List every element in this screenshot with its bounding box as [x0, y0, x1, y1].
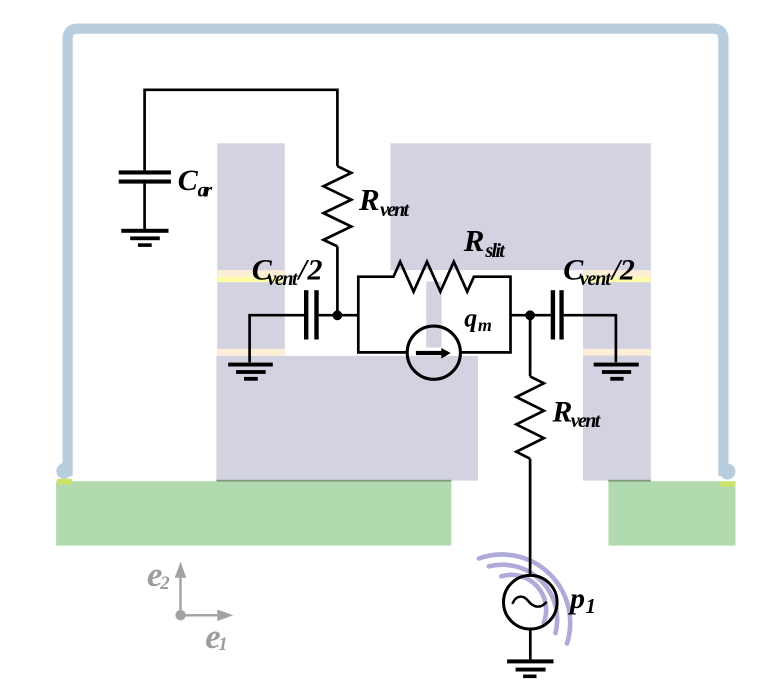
bottom-center MEMS block (lavender): [216, 356, 478, 481]
right column yellow layer: [583, 277, 651, 282]
svg-text:vent: vent: [580, 268, 613, 290]
svg-text:/2: /2: [610, 253, 635, 286]
wire node B down: [529, 315, 532, 376]
svg-text:1: 1: [586, 594, 597, 618]
wire left Cvent to node A: [319, 314, 359, 317]
svg-text:vent: vent: [571, 410, 602, 432]
lid right end blob: [720, 464, 736, 480]
capacitor C1 Car plates: [119, 170, 171, 174]
top-right MEMS block (lavender): [390, 143, 650, 270]
svg-text:R: R: [358, 182, 380, 217]
capacitor C3 right Cvent plates: [551, 290, 555, 339]
left column cream layer top: [217, 270, 285, 277]
bond line right: [608, 480, 650, 482]
current source U1 arrow: [416, 351, 442, 355]
substrate right (green): [608, 481, 735, 545]
loop box with resistor R2 Rslit zigzag: [358, 262, 510, 353]
wire top loop: [145, 90, 338, 171]
svg-text:slit: slit: [484, 240, 506, 262]
node A junction dot: [333, 310, 343, 320]
svg-text:ar: ar: [198, 180, 213, 202]
ground under Car: [121, 229, 168, 233]
lid left end blob: [56, 463, 71, 479]
substrate left (green): [56, 481, 451, 545]
wire left Cvent to ground: [250, 315, 304, 362]
ground under right Cvent: [594, 363, 639, 367]
axes e1 e2: [175, 562, 234, 621]
package lid outline (blue frame): [68, 29, 724, 476]
sound wave arc inner: [501, 575, 546, 623]
left MEMS column (lavender): [217, 143, 285, 355]
svg-text:vent: vent: [267, 268, 299, 290]
svg-text:R: R: [551, 395, 572, 428]
resistor R3 Rvent bottom zigzag: [516, 376, 544, 458]
svg-text:R: R: [463, 223, 485, 258]
resistor R1 Rvent top zigzag: [324, 166, 352, 246]
right MEMS column (lavender): [583, 270, 651, 481]
sound wave arc outer: [479, 555, 570, 644]
right column cream layer lower: [583, 349, 651, 356]
right solder mark: [720, 482, 736, 487]
capacitor C2 left Cvent plates: [304, 290, 308, 339]
slit strip (lavender): [426, 282, 441, 348]
svg-text:1: 1: [218, 634, 228, 655]
svg-text:2: 2: [159, 573, 170, 594]
wire right Cvent to ground: [564, 315, 616, 362]
ground under left Cvent: [228, 363, 273, 367]
bond line left: [216, 480, 451, 482]
svg-text:vent: vent: [380, 199, 410, 221]
wire Rvent to node A: [336, 246, 339, 315]
wire node B to right Cvent: [511, 314, 551, 317]
left solder mark: [57, 479, 72, 485]
ground under p1: [507, 659, 553, 663]
node B junction dot: [525, 310, 535, 320]
source p1 circle: [504, 575, 558, 629]
wire Rvent to source p1: [529, 459, 532, 576]
svg-text:C: C: [178, 164, 199, 197]
svg-text:/2: /2: [297, 253, 323, 286]
right column cream layer top: [583, 270, 651, 277]
source p1 sine: [513, 597, 546, 607]
left column yellow layer: [217, 277, 285, 282]
wire p1 to ground: [529, 629, 532, 660]
svg-text:p: p: [567, 582, 585, 615]
svg-text:q: q: [464, 304, 477, 333]
left column cream layer lower: [217, 349, 285, 356]
svg-text:m: m: [478, 315, 492, 335]
wire C_ar to ground: [143, 184, 146, 229]
sound wave arc middle: [489, 565, 557, 633]
current source U1 circle: [407, 326, 460, 379]
